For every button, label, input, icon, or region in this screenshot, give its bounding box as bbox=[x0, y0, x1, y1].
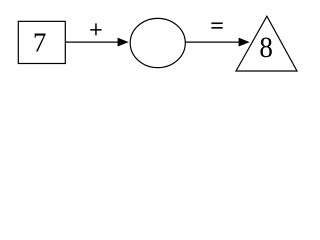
box 7 bbox=[18, 21, 65, 63]
circle node bbox=[130, 18, 185, 67]
wire arrow 1 bbox=[65, 41, 120, 43]
wire arrow 2 bbox=[185, 41, 241, 43]
label + bbox=[90, 23, 101, 35]
arrowhead 1 bbox=[118, 38, 129, 47]
triangle 8 bbox=[236, 16, 297, 71]
svg-text:7: 7 bbox=[33, 27, 47, 57]
arrowhead 2 bbox=[239, 38, 250, 47]
label = bbox=[211, 23, 222, 28]
svg-text:8: 8 bbox=[259, 32, 272, 65]
